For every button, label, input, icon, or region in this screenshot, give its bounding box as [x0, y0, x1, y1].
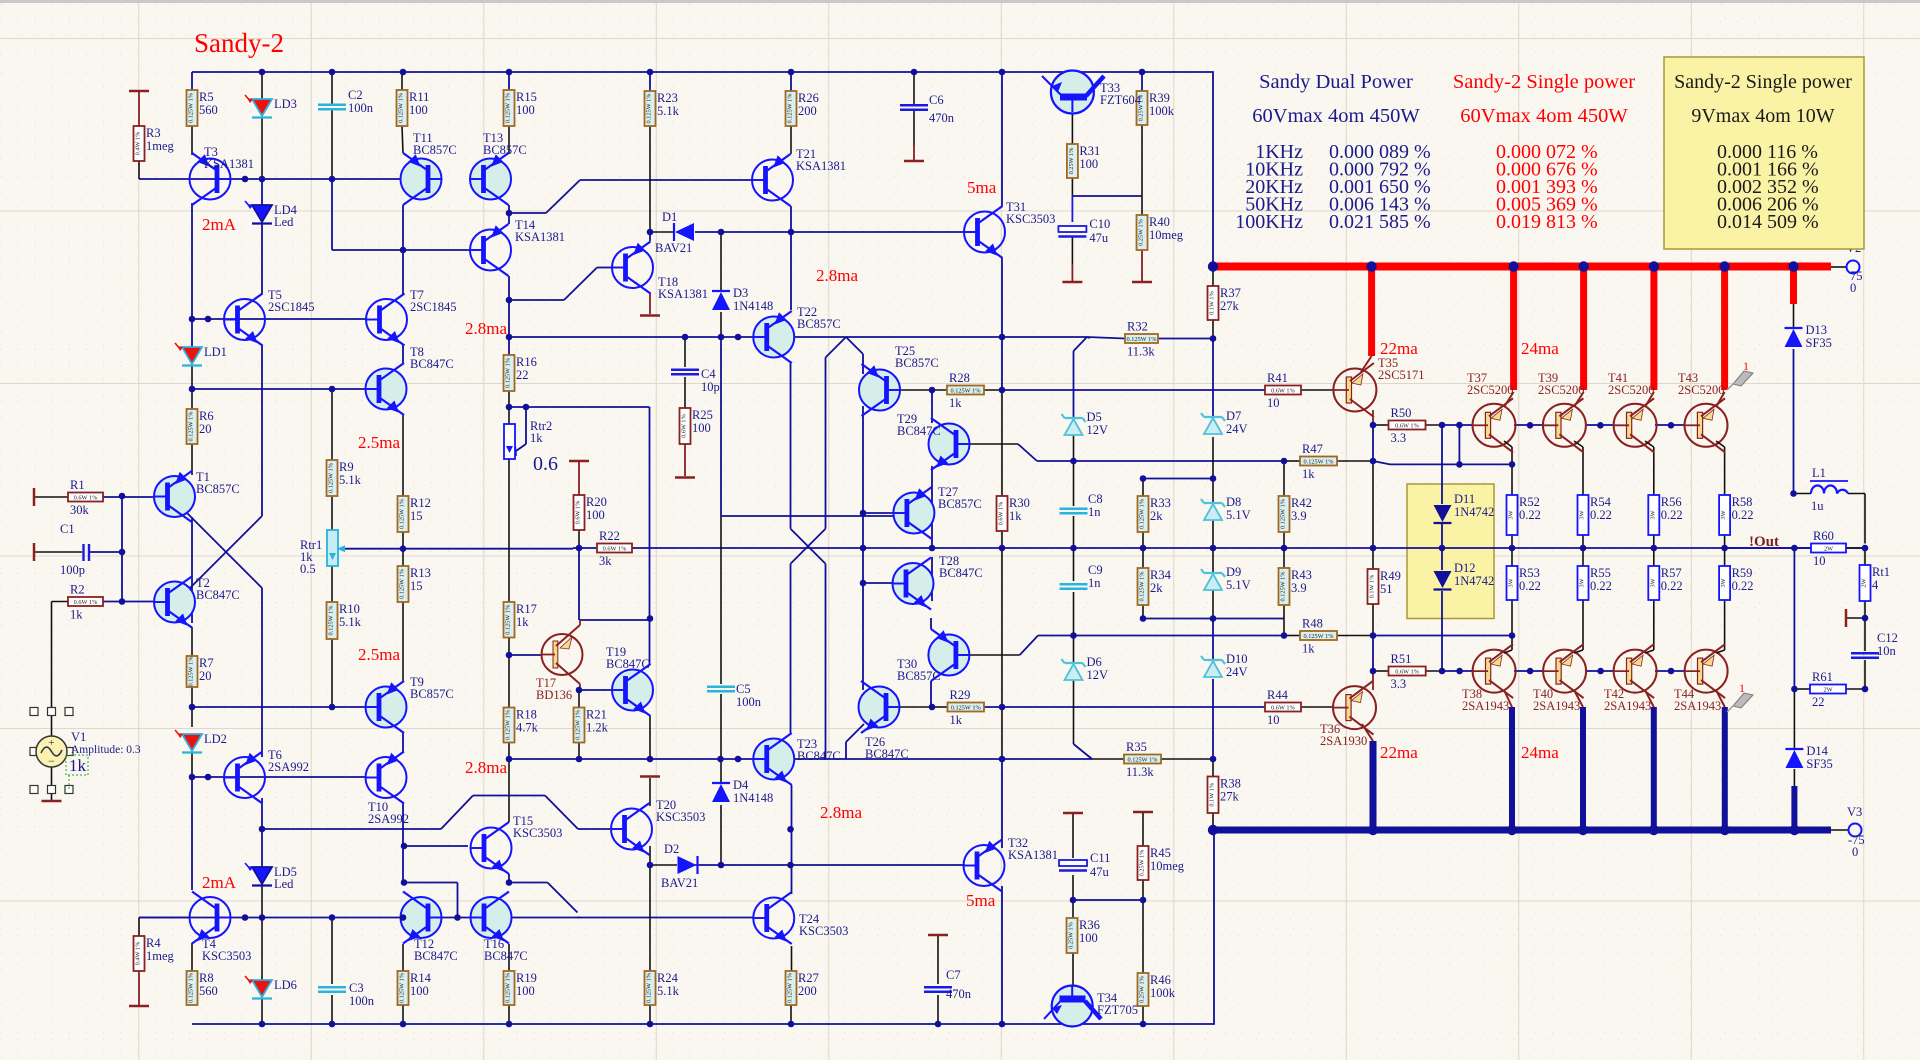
svg-text:22: 22	[516, 368, 529, 382]
wire R24 col	[649, 865, 651, 971]
wire R51 row y=671	[1373, 670, 1389, 672]
svg-text:0.125W 1%: 0.125W 1%	[787, 972, 794, 1003]
transistor T14	[470, 230, 511, 271]
svg-text:0.125W 1%: 0.125W 1%	[188, 411, 195, 442]
svg-text:1k: 1k	[1302, 467, 1315, 481]
wire T41 collector link	[1645, 392, 1654, 407]
wire row y=461	[1037, 460, 1284, 462]
wire V2 lead	[1831, 266, 1847, 268]
wire R1 row	[34, 496, 68, 498]
wire R55/R57/R59 cols	[1582, 548, 1584, 566]
power stub R45	[1133, 811, 1153, 814]
diode D2	[678, 856, 697, 874]
wire D5 tap diagonal	[1074, 337, 1088, 351]
svg-text:C9: C9	[1088, 563, 1103, 577]
svg-text:R7: R7	[199, 656, 214, 670]
wire R11 leads x=402	[401, 72, 403, 90]
svg-text:2W: 2W	[1823, 687, 1832, 694]
svg-text:0.125W 1%: 0.125W 1%	[646, 972, 653, 1003]
diode D1	[673, 223, 675, 241]
svg-text:2.8ma: 2.8ma	[465, 758, 507, 777]
svg-text:BC847C: BC847C	[410, 357, 454, 371]
svg-text:C5: C5	[736, 682, 751, 696]
svg-text:0.22: 0.22	[1661, 579, 1683, 593]
wire T21/R26 col x=791	[790, 72, 792, 91]
svg-text:0.125W 1%: 0.125W 1%	[1139, 498, 1146, 529]
resistor R25	[680, 408, 691, 444]
svg-text:BAV21: BAV21	[661, 876, 698, 890]
wire R32 left leg	[1087, 337, 1090, 338]
wire x=1213 column	[1212, 267, 1214, 286]
svg-text:R37: R37	[1220, 286, 1241, 300]
zener D12	[1434, 571, 1452, 588]
wire row y=478.5	[1143, 478, 1213, 480]
svg-text:0.125W 1%: 0.125W 1%	[188, 972, 195, 1003]
wire C8/C9/D5/D6 col x=1073	[1073, 435, 1075, 506]
svg-text:R22: R22	[599, 529, 620, 543]
svg-text:5.1V: 5.1V	[1226, 578, 1251, 592]
svg-text:0.25W 1%: 0.25W 1%	[1139, 975, 1146, 1003]
resistor R26	[786, 91, 797, 126]
zener D5	[1065, 417, 1083, 419]
svg-text:100p: 100p	[60, 563, 85, 577]
svg-text:24ma: 24ma	[1521, 743, 1559, 762]
svg-text:D9: D9	[1226, 565, 1241, 579]
svg-text:Led: Led	[274, 877, 294, 891]
svg-text:C6: C6	[929, 93, 944, 107]
svg-text:R2: R2	[70, 583, 85, 597]
wire T15 base row y=846	[403, 845, 468, 847]
resistor R15	[504, 90, 515, 126]
svg-text:R4: R4	[146, 936, 161, 950]
svg-text:R31: R31	[1079, 144, 1100, 158]
svg-text:22ma: 22ma	[1380, 743, 1418, 762]
svg-text:0.22: 0.22	[1661, 508, 1683, 522]
wire R41 row to T35	[1301, 389, 1333, 391]
svg-text:LD1: LD1	[204, 345, 227, 359]
svg-text:R42: R42	[1291, 496, 1312, 510]
resistor R56	[1648, 495, 1659, 535]
wire T30 base diag row y=635	[969, 654, 1020, 656]
svg-text:C11: C11	[1090, 851, 1110, 865]
transistor T16	[471, 897, 512, 938]
wire R2 row	[103, 601, 153, 603]
svg-text:60Vmax 4om 450W: 60Vmax 4om 450W	[1460, 105, 1628, 127]
svg-text:C7: C7	[946, 968, 961, 982]
resistor R40	[1137, 215, 1148, 250]
wire T37 collector link	[1504, 392, 1514, 407]
svg-text:4.7k: 4.7k	[516, 721, 539, 735]
wire R3 column	[138, 91, 140, 126]
wire V3 lead	[1831, 829, 1848, 831]
svg-text:KSA1381: KSA1381	[658, 287, 708, 301]
svg-text:R40: R40	[1149, 215, 1170, 229]
svg-text:3W: 3W	[1649, 578, 1656, 587]
svg-text:R13: R13	[410, 566, 431, 580]
svg-text:20: 20	[199, 669, 212, 683]
wire T5 emitter x=262 to X-swap	[261, 345, 263, 516]
table box Sandy-2 Single power 9V	[1664, 57, 1864, 249]
resistor R38	[1208, 777, 1219, 814]
svg-text:100n: 100n	[736, 695, 762, 709]
transistor T34	[1052, 986, 1093, 1027]
resistor R29	[948, 703, 985, 712]
svg-text:SF35: SF35	[1806, 757, 1832, 771]
svg-text:100: 100	[409, 103, 428, 117]
svg-text:0.125W 1%: 0.125W 1%	[399, 568, 406, 599]
svg-text:R18: R18	[516, 708, 537, 722]
svg-text:2mA: 2mA	[202, 873, 237, 892]
wire T42 collector link	[1645, 650, 1654, 653]
svg-text:D5: D5	[1087, 410, 1102, 424]
svg-text:0.125W 1%: 0.125W 1%	[505, 357, 512, 388]
svg-text:47u: 47u	[1089, 231, 1109, 245]
wire T43 collector link	[1716, 392, 1725, 407]
transistor T4	[190, 897, 231, 938]
wire Rt1 gnd stub	[1846, 617, 1865, 619]
svg-text:1k: 1k	[516, 615, 529, 629]
wire column x=192 chain	[191, 72, 193, 90]
svg-text:22: 22	[1812, 695, 1825, 709]
svg-text:0.125W 1%: 0.125W 1%	[646, 93, 653, 124]
wire T19 base row	[579, 689, 612, 691]
svg-text:100: 100	[1079, 931, 1098, 945]
transistor T3	[190, 159, 231, 200]
svg-text:0.125W 1%: 0.125W 1%	[1304, 459, 1335, 466]
svg-text:R44: R44	[1267, 688, 1289, 702]
resistor R16	[504, 355, 515, 391]
wire D1 row y=232	[650, 231, 674, 233]
svg-text:BC847C: BC847C	[196, 588, 240, 602]
capacitor C9	[1060, 583, 1088, 585]
zener D10	[1204, 659, 1222, 661]
navy riser T44	[1722, 707, 1728, 830]
svg-text:0.125W 1%: 0.125W 1%	[328, 605, 335, 636]
svg-text:R41: R41	[1267, 371, 1288, 385]
svg-text:D7: D7	[1226, 409, 1241, 423]
wire T31 base row y=232	[944, 231, 965, 233]
svg-text:10: 10	[1267, 713, 1280, 727]
resistor R42	[1279, 496, 1290, 532]
svg-text:BC857C: BC857C	[413, 143, 457, 157]
svg-text:FZT604: FZT604	[1100, 93, 1142, 107]
wire out row right	[1725, 547, 1811, 549]
svg-text:10meg: 10meg	[1150, 859, 1185, 873]
capacitor C11	[1059, 860, 1087, 866]
svg-text:R56: R56	[1661, 495, 1682, 509]
transistor T24	[753, 898, 794, 939]
svg-text:2SA1930: 2SA1930	[1320, 734, 1367, 748]
resistor R48	[1300, 631, 1337, 640]
svg-text:R34: R34	[1150, 568, 1172, 582]
wire C11/R36/R45/R46	[1072, 814, 1074, 858]
transistor T29	[929, 424, 970, 465]
svg-text:C10: C10	[1089, 217, 1110, 231]
svg-text:D14: D14	[1806, 744, 1828, 758]
source V1	[30, 708, 38, 716]
svg-text:R49: R49	[1380, 569, 1401, 583]
svg-text:4: 4	[1872, 578, 1879, 592]
svg-text:0.6W 1%: 0.6W 1%	[74, 599, 98, 606]
wire R14 col	[402, 944, 404, 971]
probe 1 bottom	[1733, 693, 1753, 708]
svg-text:R17: R17	[516, 602, 537, 616]
svg-text:Rt1: Rt1	[1872, 565, 1890, 579]
svg-text:R30: R30	[1009, 496, 1030, 510]
svg-text:3.3: 3.3	[1391, 677, 1407, 691]
svg-text:1N4742: 1N4742	[1454, 505, 1494, 519]
resistor R4	[134, 936, 145, 971]
svg-text:+: +	[48, 737, 54, 749]
svg-text:Sandy-2: Sandy-2	[194, 28, 284, 58]
svg-text:15: 15	[410, 579, 423, 593]
red drop T41	[1650, 267, 1657, 391]
svg-text:2k: 2k	[1150, 509, 1163, 523]
zener D9	[1204, 572, 1222, 574]
svg-text:R19: R19	[516, 971, 537, 985]
svg-text:1k: 1k	[950, 713, 963, 727]
svg-text:2SC1845: 2SC1845	[410, 300, 457, 314]
transistor T31	[964, 212, 1005, 253]
svg-text:2k: 2k	[1150, 581, 1163, 595]
resistor R22	[597, 544, 632, 553]
ground R25	[675, 476, 695, 479]
svg-text:R32: R32	[1127, 320, 1148, 334]
svg-text:0.22: 0.22	[1732, 579, 1754, 593]
svg-text:R1: R1	[70, 478, 85, 492]
svg-text:15: 15	[410, 509, 423, 523]
svg-text:0.22: 0.22	[1590, 508, 1612, 522]
wire V1 column	[51, 602, 53, 737]
svg-text:2SA992: 2SA992	[368, 812, 409, 826]
ground V1	[42, 800, 62, 803]
svg-text:100: 100	[410, 984, 429, 998]
navy riser D14	[1791, 786, 1797, 830]
wire R48 row y=635 right	[1373, 635, 1512, 637]
svg-text:0.125W 1%: 0.125W 1%	[328, 462, 335, 493]
svg-text:1N4148: 1N4148	[733, 299, 773, 313]
wire input col x=122	[121, 496, 123, 602]
svg-text:2SC5171: 2SC5171	[1378, 368, 1425, 382]
wire R4/T4 base	[139, 917, 190, 919]
red drop T37	[1510, 267, 1517, 391]
svg-text:SF35: SF35	[1806, 336, 1832, 350]
wire T39 collector link	[1574, 392, 1584, 407]
probe 1 top	[1733, 371, 1753, 386]
svg-text:KSA1381: KSA1381	[1008, 848, 1058, 862]
svg-text:R11: R11	[409, 90, 429, 104]
capacitor C2	[318, 104, 346, 106]
svg-text:KSA1381: KSA1381	[204, 157, 254, 171]
resistor R8	[187, 971, 198, 1005]
svg-text:5ma: 5ma	[966, 891, 996, 910]
resistor R57	[1648, 566, 1659, 600]
svg-text:20: 20	[199, 422, 212, 436]
svg-text:R21: R21	[586, 708, 607, 722]
svg-text:R3: R3	[146, 126, 161, 140]
svg-text:C3: C3	[349, 981, 364, 995]
svg-text:2.8ma: 2.8ma	[820, 803, 862, 822]
svg-text:KSC3503: KSC3503	[799, 924, 848, 938]
wire T29 base diag	[969, 443, 1018, 445]
capacitor C8	[1060, 508, 1088, 510]
svg-text:KSC3503: KSC3503	[202, 949, 251, 963]
resistor R11	[397, 90, 408, 126]
svg-text:5.1k: 5.1k	[339, 473, 362, 487]
svg-text:3.3: 3.3	[1391, 431, 1407, 445]
wire T14 base row y=250	[332, 249, 470, 251]
wire R23/T18 col x=650	[649, 72, 651, 91]
svg-text:3.9: 3.9	[1291, 509, 1307, 523]
ground R40	[1132, 281, 1152, 284]
svg-text:10p: 10p	[701, 380, 720, 394]
wire T20 power stub	[649, 778, 651, 806]
wire long output row y=548	[573, 547, 597, 549]
svg-text:R10: R10	[339, 602, 360, 616]
wire T22 collector & swap	[790, 362, 792, 529]
svg-text:0.125W 1%: 0.125W 1%	[398, 92, 405, 123]
svg-text:D10: D10	[1226, 652, 1248, 666]
wire T23 emitter	[791, 785, 793, 865]
wire D3 col x=721	[720, 232, 722, 291]
svg-text:24V: 24V	[1226, 665, 1248, 679]
svg-text:R39: R39	[1149, 91, 1170, 105]
svg-text:Amplitude: 0.3: Amplitude: 0.3	[71, 744, 141, 756]
transistor T6	[224, 757, 265, 798]
svg-text:D12: D12	[1454, 561, 1476, 575]
svg-text:0.125W 1%: 0.125W 1%	[1139, 571, 1146, 602]
svg-text:51: 51	[1380, 582, 1393, 596]
svg-text:R16: R16	[516, 355, 537, 369]
wire T6 collector-LD5 x=262	[261, 798, 263, 867]
svg-text:R36: R36	[1079, 918, 1100, 932]
source V2	[1847, 261, 1860, 274]
wire x=863 col T25-T27-T28	[862, 406, 864, 583]
wire T17 base row y=655	[509, 654, 541, 656]
svg-text:D13: D13	[1806, 323, 1828, 337]
wire T41 emitter link	[1645, 441, 1654, 447]
svg-text:D2: D2	[664, 842, 679, 856]
svg-text:FZT705: FZT705	[1097, 1003, 1138, 1017]
resistor R58	[1719, 495, 1730, 535]
resistor R41	[1265, 386, 1301, 395]
svg-text:560: 560	[199, 103, 218, 117]
capacitor C12	[1851, 652, 1879, 654]
svg-text:R29: R29	[950, 688, 971, 702]
transistor T18	[612, 247, 653, 288]
gnd stub Rt1	[1845, 609, 1848, 627]
wire T9 base row y=707	[192, 706, 366, 708]
svg-text:100: 100	[516, 103, 535, 117]
svg-text:10: 10	[1267, 396, 1280, 410]
svg-text:2W: 2W	[1824, 546, 1833, 553]
svg-text:2SC5200: 2SC5200	[1467, 383, 1514, 397]
capacitor C7	[924, 986, 952, 988]
wire output base row y=425	[1442, 424, 1473, 426]
diode D14	[1785, 748, 1803, 750]
svg-text:0.125W 1%: 0.125W 1%	[1280, 571, 1287, 602]
svg-text:V1: V1	[71, 730, 86, 744]
resistor R33	[1138, 496, 1149, 532]
wire T35 emitter to R50	[1372, 410, 1374, 425]
transistor T39	[1543, 404, 1586, 447]
svg-text:3W: 3W	[1720, 578, 1727, 587]
red drop T39	[1580, 267, 1587, 391]
wire T19 emitter	[649, 716, 651, 759]
svg-text:0.019 813 %: 0.019 813 %	[1496, 211, 1598, 233]
svg-text:10n: 10n	[1877, 644, 1897, 658]
transistor T37	[1473, 404, 1516, 447]
junction dots	[259, 69, 266, 76]
red drop D13	[1790, 267, 1797, 305]
resistor R23	[645, 91, 656, 126]
svg-text:0.6W 1%: 0.6W 1%	[1271, 388, 1295, 395]
svg-text:0.6W 1%: 0.6W 1%	[1395, 669, 1419, 676]
power stub C11	[1063, 812, 1083, 815]
transistor T40	[1543, 650, 1586, 693]
svg-text:47u: 47u	[1090, 865, 1110, 879]
wire D11/D12 col x=1442	[1441, 425, 1443, 504]
wire R35 row to R38	[1092, 758, 1124, 760]
wire T36 emitter	[1372, 671, 1374, 690]
wire row y=337	[509, 336, 754, 338]
svg-text:0.125W 1%: 0.125W 1%	[505, 709, 512, 740]
svg-text:R51: R51	[1391, 652, 1412, 666]
resistor R37	[1208, 286, 1219, 320]
svg-text:KSA1381: KSA1381	[515, 230, 565, 244]
svg-text:27k: 27k	[1220, 299, 1240, 313]
navy riser T36 22ma	[1370, 741, 1377, 830]
svg-text:0: 0	[1852, 845, 1858, 859]
transistor T13	[470, 159, 511, 200]
resistor R5	[187, 90, 198, 126]
svg-text:R15: R15	[516, 90, 537, 104]
wire R28 row y=390	[900, 389, 947, 391]
svg-text:0.6W 1%: 0.6W 1%	[575, 500, 582, 524]
svg-text:LD2: LD2	[204, 732, 227, 746]
resistor R54	[1578, 495, 1589, 535]
resistor R7	[187, 656, 198, 687]
svg-text:2SA1943: 2SA1943	[1462, 699, 1509, 713]
svg-text:1n: 1n	[1088, 576, 1101, 590]
svg-text:0.6W 1%: 0.6W 1%	[1271, 705, 1295, 712]
svg-text:D4: D4	[733, 778, 749, 792]
svg-text:1k: 1k	[70, 608, 83, 622]
svg-text:C1: C1	[60, 522, 75, 536]
source V3	[1849, 824, 1862, 837]
wire T5/T7 base row y=319	[192, 318, 366, 320]
svg-text:1meg: 1meg	[146, 949, 175, 963]
svg-text:R48: R48	[1302, 617, 1323, 631]
wire T20 emitter to D2	[649, 846, 651, 865]
svg-text:0.125W 1%: 0.125W 1%	[1128, 757, 1159, 764]
svg-text:1k: 1k	[69, 756, 87, 775]
svg-text:3W: 3W	[1508, 510, 1515, 519]
svg-text:D8: D8	[1226, 495, 1241, 509]
resistor R10	[327, 602, 338, 639]
svg-text:0.1W 1%: 0.1W 1%	[1209, 290, 1216, 314]
LED LD1	[182, 347, 202, 364]
resistor R50	[1389, 421, 1426, 430]
svg-text:60Vmax 4om 450W: 60Vmax 4om 450W	[1252, 105, 1420, 127]
wire T17 collector-R21	[578, 690, 580, 708]
wire T40 collector link	[1574, 650, 1583, 653]
wire D13 col	[1793, 303, 1795, 327]
svg-text:Sandy-2 Single power: Sandy-2 Single power	[1453, 71, 1635, 93]
wire T20 base row y=829	[262, 828, 441, 830]
resistor R59	[1719, 566, 1730, 600]
svg-text:1: 1	[1743, 359, 1749, 373]
